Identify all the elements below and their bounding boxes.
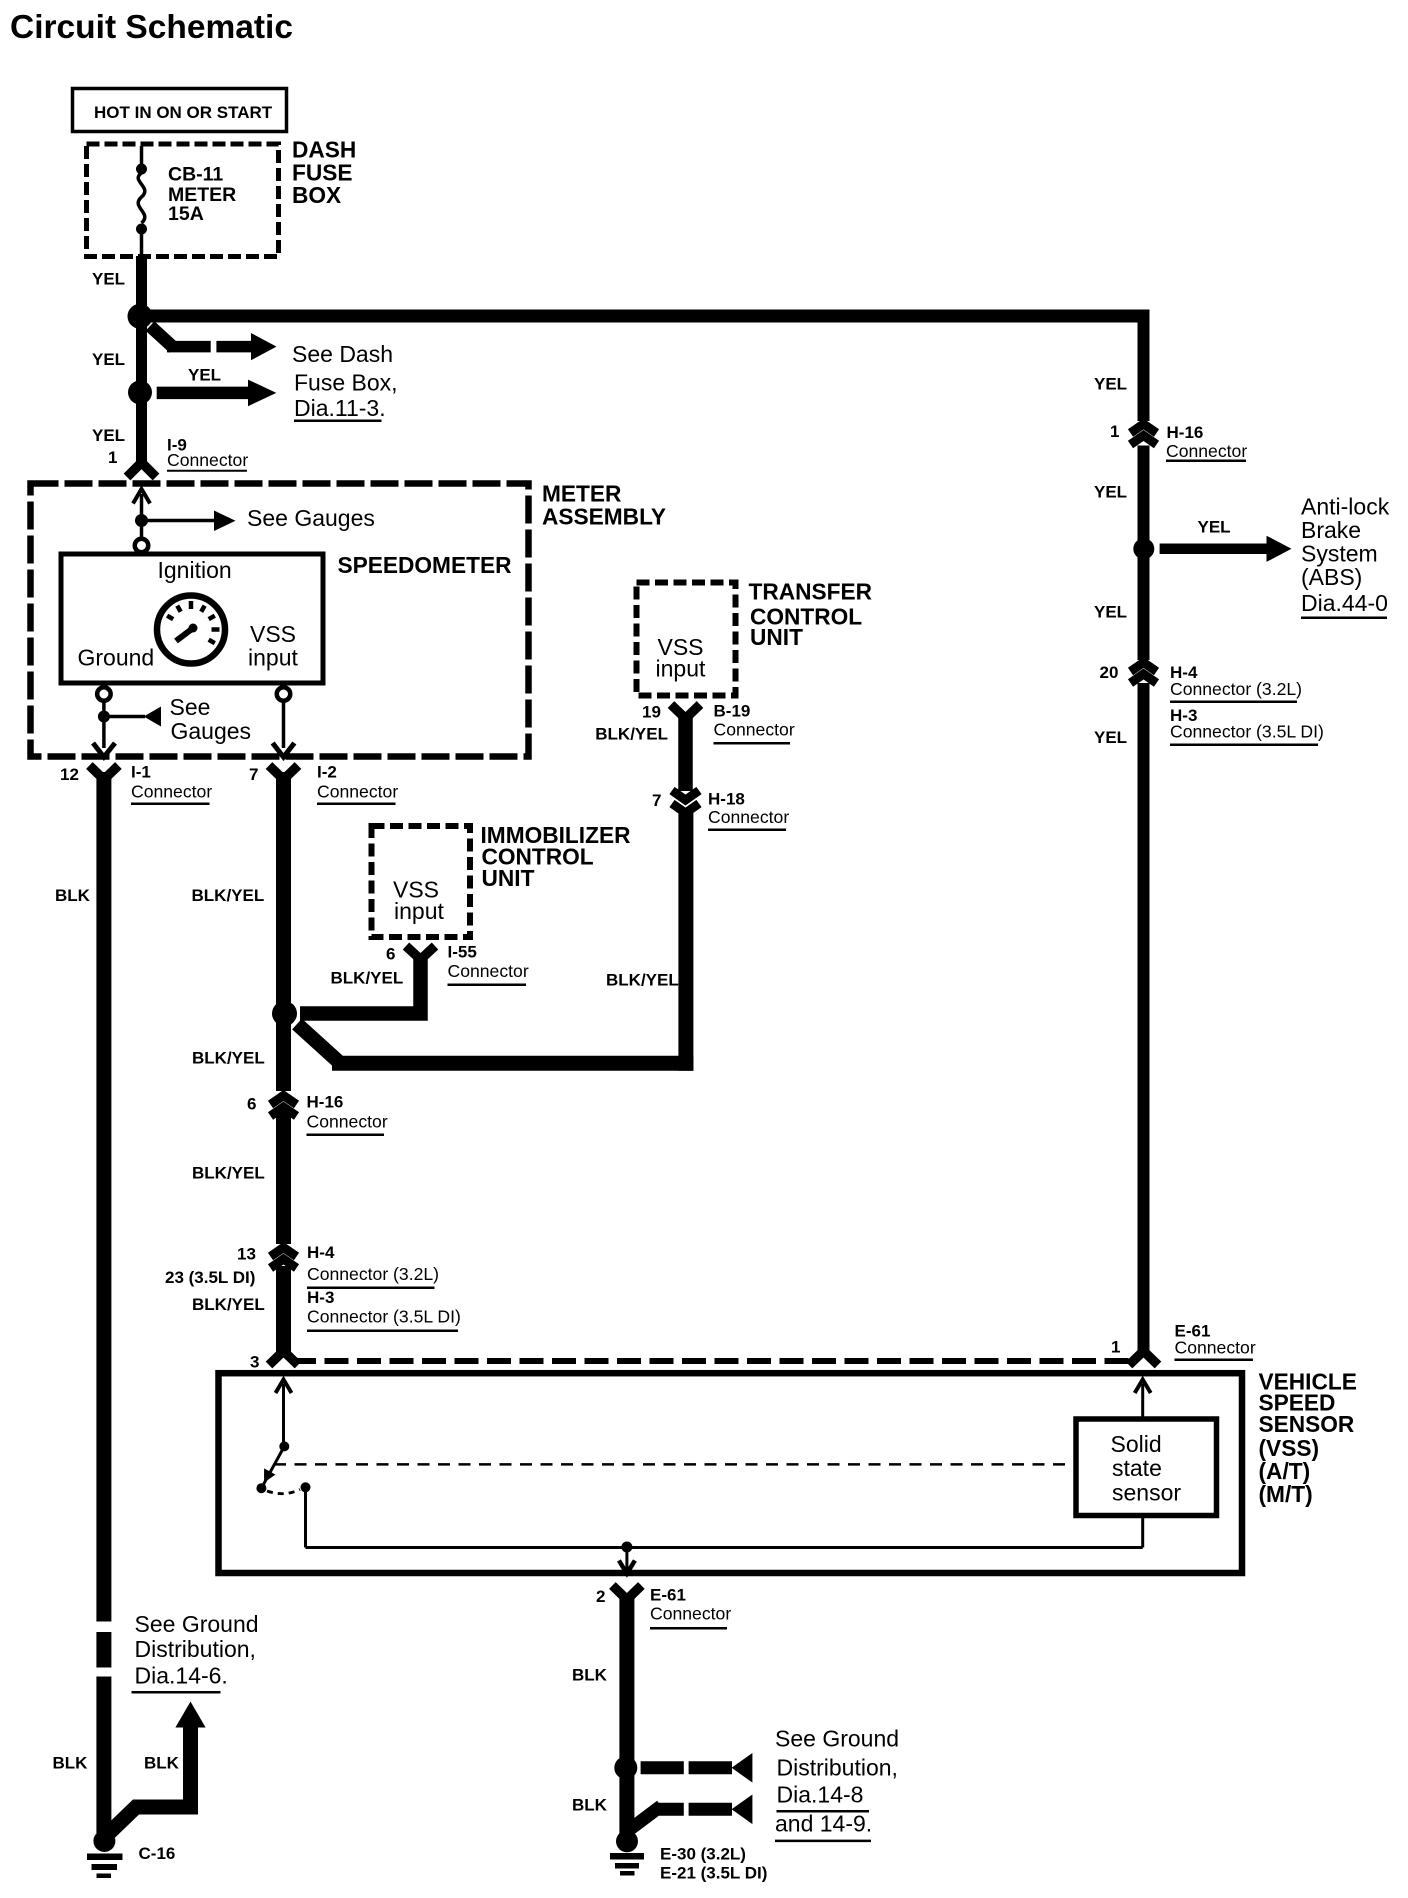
right column YEL labels xyxy=(1094,374,1127,747)
arrow BLK up to ground distribution 14-6 xyxy=(53,1702,206,1835)
pin circle speedometer top xyxy=(135,539,149,553)
svg-text:H-4: H-4 xyxy=(307,1243,335,1262)
svg-text:BOX: BOX xyxy=(292,182,341,208)
svg-text:7: 7 xyxy=(652,791,661,810)
immobilizer control unit box (dashed) xyxy=(372,822,631,937)
svg-text:TRANSFER: TRANSFER xyxy=(749,579,873,605)
svg-text:Connector: Connector xyxy=(131,781,212,801)
connector H-16 left xyxy=(247,1093,388,1135)
svg-text:Dia.11-3.: Dia.11-3. xyxy=(294,395,386,421)
svg-text:See Gauges: See Gauges xyxy=(247,505,375,531)
ground C-16 xyxy=(87,1830,175,1878)
svg-text:ASSEMBLY: ASSEMBLY xyxy=(542,503,666,529)
wire into meter assembly with see gauges arrow xyxy=(133,489,375,538)
svg-text:BLK: BLK xyxy=(144,1754,180,1773)
connector H-4 H-3 left xyxy=(165,1243,461,1331)
svg-text:BLK/YEL: BLK/YEL xyxy=(192,886,265,905)
svg-text:See: See xyxy=(170,694,211,720)
svg-text:SPEEDOMETER: SPEEDOMETER xyxy=(338,552,512,578)
node junction E with arrow down xyxy=(619,1542,635,1574)
wire sensor bottom xyxy=(1141,1516,1144,1548)
wire diagonal from junction C xyxy=(297,1024,340,1063)
svg-text:YEL: YEL xyxy=(188,366,221,385)
wire lower horizontal to H-18 riser xyxy=(332,1056,693,1071)
ground E-30 E-21 xyxy=(610,1830,767,1882)
connector H-4 H-3 right xyxy=(1100,663,1324,745)
svg-text:HOT IN ON OR START: HOT IN ON OR START xyxy=(94,103,273,122)
svg-text:See Ground: See Ground xyxy=(775,1726,899,1752)
svg-text:7: 7 xyxy=(249,765,258,784)
wire stub to I-55 xyxy=(300,959,421,1014)
svg-text:H-16: H-16 xyxy=(307,1093,344,1112)
svg-text:3: 3 xyxy=(250,1353,259,1372)
wire riser to H-18 xyxy=(678,813,693,1071)
meter assembly box (dashed) xyxy=(31,480,666,756)
svg-text:6: 6 xyxy=(386,945,395,964)
svg-text:System: System xyxy=(1301,541,1378,567)
svg-text:YEL: YEL xyxy=(1094,602,1127,621)
connector H-16 right xyxy=(1110,422,1247,461)
svg-text:C-16: C-16 xyxy=(139,1844,176,1863)
connector E-61 pin 2 xyxy=(596,1586,731,1629)
svg-text:YEL: YEL xyxy=(1094,728,1127,747)
wire switch to bottom rail xyxy=(304,1487,307,1547)
svg-text:I-1: I-1 xyxy=(131,763,151,782)
svg-text:19: 19 xyxy=(642,703,661,722)
connector I-9 xyxy=(127,435,248,477)
svg-text:1: 1 xyxy=(1110,422,1119,441)
note see dash fuse box xyxy=(292,341,398,421)
wire main bus horizontal xyxy=(134,310,1150,323)
svg-text:Fuse Box,: Fuse Box, xyxy=(294,369,398,395)
svg-text:E-61: E-61 xyxy=(650,1586,686,1605)
svg-text:BLK: BLK xyxy=(55,886,91,905)
arrow ground distribution 1 xyxy=(641,1753,753,1783)
svg-text:Connector: Connector xyxy=(708,807,789,827)
svg-text:BLK/YEL: BLK/YEL xyxy=(192,1049,265,1068)
svg-text:B-19: B-19 xyxy=(714,702,751,721)
switch reed xyxy=(256,1441,310,1493)
svg-text:2: 2 xyxy=(596,1587,605,1606)
svg-text:BLK: BLK xyxy=(53,1754,89,1773)
svg-text:Dia.14-8: Dia.14-8 xyxy=(777,1782,864,1808)
svg-text:6: 6 xyxy=(247,1095,256,1114)
svg-text:E-30 (3.2L): E-30 (3.2L) xyxy=(660,1845,746,1864)
note see ground distribution 14-6 xyxy=(132,1611,259,1692)
wire main bus right vertical top xyxy=(1138,310,1150,421)
svg-text:BLK: BLK xyxy=(572,1665,608,1684)
wire right column vertical xyxy=(1138,446,1150,1354)
svg-text:input: input xyxy=(394,898,444,924)
svg-text:Connector: Connector xyxy=(650,1603,731,1623)
transfer control unit box (dashed) xyxy=(637,579,873,696)
svg-text:VSS: VSS xyxy=(250,621,296,647)
svg-text:E-21 (3.5L DI): E-21 (3.5L DI) xyxy=(660,1864,767,1883)
wire BLK/YEL I-2 down xyxy=(192,772,284,1353)
wire YEL fuse box to I-9 xyxy=(92,256,142,467)
svg-text:1: 1 xyxy=(108,448,117,467)
svg-text:(M/T): (M/T) xyxy=(1259,1481,1313,1507)
svg-text:Connector (3.2L): Connector (3.2L) xyxy=(1170,679,1302,699)
svg-text:sensor: sensor xyxy=(1112,1479,1181,1505)
connector I-2 xyxy=(249,763,398,804)
svg-text:Circuit Schematic: Circuit Schematic xyxy=(10,9,293,46)
svg-text:Gauges: Gauges xyxy=(171,718,252,744)
svg-text:Connector: Connector xyxy=(1166,441,1247,461)
svg-text:Connector: Connector xyxy=(307,1112,388,1132)
svg-text:state: state xyxy=(1112,1455,1162,1481)
svg-text:BLK/YEL: BLK/YEL xyxy=(192,1164,265,1183)
svg-text:SENSOR: SENSOR xyxy=(1259,1411,1355,1437)
speedometer box xyxy=(61,552,511,683)
wire ground pin with see gauges arrow xyxy=(93,694,251,757)
svg-text:YEL: YEL xyxy=(92,426,125,445)
node junction A xyxy=(128,304,153,329)
svg-text:Connector (3.5L DI): Connector (3.5L DI) xyxy=(1170,722,1324,742)
svg-text:1: 1 xyxy=(1111,1338,1120,1357)
svg-text:15A: 15A xyxy=(168,203,204,225)
svg-text:UNIT: UNIT xyxy=(750,624,803,650)
wire B-19 to H-18 xyxy=(678,712,693,791)
svg-text:Connector: Connector xyxy=(448,961,529,981)
svg-text:CB-11: CB-11 xyxy=(168,164,223,186)
connector I-55 xyxy=(331,943,679,990)
svg-text:input: input xyxy=(656,656,706,682)
svg-text:Anti-lock: Anti-lock xyxy=(1301,494,1390,520)
svg-text:and 14-9.: and 14-9. xyxy=(775,1810,872,1836)
note see ground distribution 14-8 xyxy=(775,1726,899,1841)
connector 3 at VSS box xyxy=(250,1351,298,1372)
node junction C xyxy=(272,1001,297,1026)
node junction D xyxy=(1133,538,1154,559)
svg-text:YEL: YEL xyxy=(1094,483,1127,502)
arrow see dash fuse box 2 xyxy=(157,366,277,407)
wire sensor top with arrow xyxy=(1135,1380,1151,1420)
wire BLK bottom center xyxy=(572,1595,627,1836)
svg-text:H-3: H-3 xyxy=(307,1288,334,1307)
svg-text:See Dash: See Dash xyxy=(292,341,393,367)
svg-text:I-55: I-55 xyxy=(448,943,477,962)
node junction F xyxy=(614,1756,637,1779)
gauge dial xyxy=(157,596,225,664)
svg-text:Connector: Connector xyxy=(167,450,248,470)
solid state sensor box xyxy=(1076,1419,1217,1516)
svg-text:Dia.44-0: Dia.44-0 xyxy=(1301,590,1388,616)
connector E-61 pin 1 xyxy=(1111,1322,1256,1366)
svg-text:I-2: I-2 xyxy=(317,763,337,782)
wire bottom rail xyxy=(306,1546,1143,1549)
svg-text:23 (3.5L DI): 23 (3.5L DI) xyxy=(165,1268,255,1287)
node junction B xyxy=(128,380,152,404)
wire vss input pin down xyxy=(273,701,295,758)
fuse CB-11 METER 15A xyxy=(136,146,236,257)
svg-text:(ABS): (ABS) xyxy=(1301,564,1362,590)
svg-text:12: 12 xyxy=(60,765,79,784)
svg-text:YEL: YEL xyxy=(92,270,125,289)
pin circle speedometer bottom right xyxy=(277,687,291,701)
svg-text:UNIT: UNIT xyxy=(482,865,535,891)
svg-text:Distribution,: Distribution, xyxy=(135,1636,256,1662)
svg-text:BLK/YEL: BLK/YEL xyxy=(192,1295,265,1314)
dashed connector line E-61 xyxy=(292,1358,1131,1364)
svg-text:13: 13 xyxy=(237,1245,256,1264)
svg-text:Connector: Connector xyxy=(714,720,795,740)
svg-text:BLK: BLK xyxy=(572,1795,608,1814)
svg-text:Solid: Solid xyxy=(1111,1431,1162,1457)
wire sensor switch input left xyxy=(276,1380,292,1447)
svg-text:Distribution,: Distribution, xyxy=(777,1755,898,1781)
svg-text:Connector: Connector xyxy=(317,781,398,801)
svg-text:Dia.14-6.: Dia.14-6. xyxy=(135,1663,228,1689)
svg-text:input: input xyxy=(248,644,298,670)
svg-text:H-18: H-18 xyxy=(708,790,745,809)
svg-text:YEL: YEL xyxy=(92,350,125,369)
wire BLK left column xyxy=(55,772,104,1833)
svg-text:Brake: Brake xyxy=(1301,517,1361,543)
svg-text:BLK/YEL: BLK/YEL xyxy=(595,724,668,743)
connector I-1 xyxy=(60,763,212,804)
connector B-19 xyxy=(595,702,795,744)
dash fuse box (dashed) xyxy=(87,137,357,257)
svg-text:H-16: H-16 xyxy=(1167,423,1204,442)
svg-text:See Ground: See Ground xyxy=(135,1611,259,1637)
arrow see dash fuse box 1 xyxy=(150,326,277,360)
arrow ground distribution 2 xyxy=(629,1795,752,1831)
svg-text:Ignition: Ignition xyxy=(158,557,232,583)
vehicle speed sensor box xyxy=(219,1369,1357,1573)
HOT IN ON OR START box xyxy=(73,89,287,132)
note anti-lock brake system xyxy=(1301,494,1390,618)
svg-text:BLK/YEL: BLK/YEL xyxy=(606,970,679,989)
svg-text:YEL: YEL xyxy=(1094,374,1127,393)
svg-text:Connector (3.2L): Connector (3.2L) xyxy=(307,1264,439,1284)
svg-text:BLK/YEL: BLK/YEL xyxy=(331,969,404,988)
dashed sensor drive line xyxy=(274,1463,1075,1466)
pin circle speedometer bottom left xyxy=(97,687,111,701)
svg-text:Connector: Connector xyxy=(1175,1337,1256,1357)
connector H-18 xyxy=(652,790,789,830)
svg-text:Connector (3.5L DI): Connector (3.5L DI) xyxy=(307,1306,461,1326)
svg-text:Ground: Ground xyxy=(78,644,155,670)
arrow to ABS xyxy=(1160,517,1292,562)
svg-text:20: 20 xyxy=(1100,663,1119,682)
svg-text:YEL: YEL xyxy=(1198,517,1231,536)
